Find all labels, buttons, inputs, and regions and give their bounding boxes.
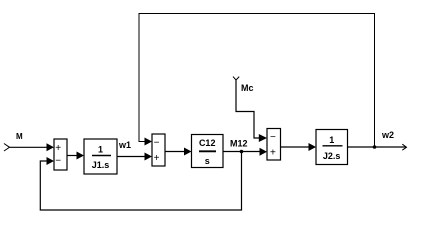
sum block S1	[54, 139, 67, 170]
node junction on M12 wire	[240, 150, 244, 154]
block C12/s	[192, 135, 224, 168]
svg-text:s: s	[205, 156, 210, 166]
sum block S3	[267, 129, 281, 161]
block 1/J2.s	[316, 130, 348, 165]
wire M to sum1 plus	[10, 146, 48, 148]
svg-text:1: 1	[329, 135, 334, 145]
output port w2	[402, 144, 406, 150]
svg-text:C12: C12	[199, 138, 216, 148]
wire sum3 to J2	[281, 146, 309, 148]
input port M	[4, 144, 10, 152]
wire bottom feedback loop from M12 node to sum1 minus	[40, 152, 241, 211]
wire top feedback loop from w2 node to sum2 minus	[139, 14, 375, 148]
wire sum2 to C12	[165, 151, 185, 153]
svg-text:+: +	[270, 148, 276, 159]
svg-text:J2.s: J2.s	[323, 151, 341, 161]
wire J1 to sum2 plus	[117, 156, 145, 158]
svg-text:−: −	[270, 132, 276, 143]
svg-text:M: M	[16, 132, 23, 141]
svg-text:J1.s: J1.s	[92, 160, 110, 170]
node junction on w2 wire	[373, 145, 377, 149]
svg-text:w2: w2	[381, 130, 394, 140]
svg-text:w1: w1	[118, 140, 131, 150]
sum block S2	[152, 134, 165, 166]
svg-text:+: +	[55, 143, 61, 154]
wire J2 to output w2	[348, 146, 407, 148]
input port Mc	[233, 77, 239, 80]
svg-text:+: +	[154, 153, 160, 164]
svg-text:−: −	[55, 156, 61, 167]
wire Mc to sum3 minus	[236, 80, 260, 138]
svg-text:Mc: Mc	[241, 83, 254, 93]
svg-text:M12: M12	[230, 138, 248, 148]
svg-text:1: 1	[98, 145, 103, 155]
block 1/J1.s	[84, 139, 117, 174]
wire C12 to sum3 plus	[223, 151, 260, 153]
wire sum1 to J1	[67, 155, 77, 157]
svg-text:−: −	[154, 138, 160, 149]
